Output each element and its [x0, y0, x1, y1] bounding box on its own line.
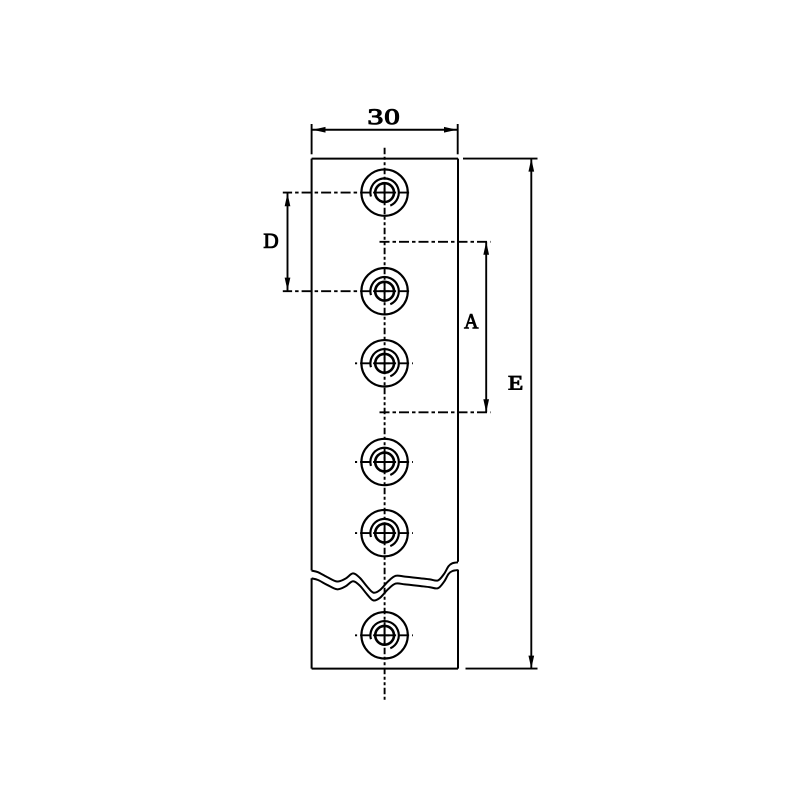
- dim 30: right arrow: [444, 127, 457, 133]
- plate outline: top edge: [312, 158, 458, 160]
- label glyph D: [264, 234, 278, 248]
- dim D: bottom arrow: [285, 278, 291, 291]
- dim E: bottom extension line: [466, 668, 538, 670]
- plate outline: bottom edge: [312, 668, 458, 670]
- dim E: dimension line: [530, 159, 532, 669]
- dim A: bottom arrow: [483, 399, 489, 412]
- hole 5: [361, 510, 407, 556]
- dim 30: dimension line: [313, 129, 458, 131]
- dim D: top arrow: [285, 193, 291, 206]
- hole 1: [361, 169, 407, 215]
- dim A: dimension line: [485, 242, 487, 412]
- hole 3 center line: [355, 362, 413, 364]
- hole 4: [361, 439, 407, 485]
- dim 30: left arrow: [313, 127, 326, 133]
- dim 30: left extension line: [311, 124, 313, 154]
- dim 30: right extension line: [457, 124, 459, 154]
- hole 1 center line (D ref top): [283, 192, 412, 194]
- dim E: bottom arrow: [528, 656, 534, 669]
- dim E: top extension line: [463, 158, 538, 160]
- label glyph 0: [385, 109, 398, 124]
- dim A: top arrow: [483, 242, 489, 255]
- vertical center line: [384, 148, 386, 700]
- plate outline: right edge (interrupted by break): [457, 159, 459, 669]
- hole 3: [361, 340, 407, 386]
- dim A: top reference line: [380, 241, 491, 243]
- hole 2 center line (D ref bottom): [283, 290, 412, 292]
- label glyph E: [509, 376, 522, 389]
- dim D: dimension line: [287, 193, 289, 290]
- label glyph A: [464, 314, 478, 328]
- hole 6: [361, 612, 407, 658]
- hole 2: [361, 268, 407, 314]
- hole 5 center line: [355, 532, 413, 534]
- plate outline: left edge (interrupted by break): [311, 159, 313, 669]
- break line bottom wavy: [312, 570, 458, 600]
- dim A: bottom reference line: [380, 411, 491, 413]
- dim E: top arrow: [528, 159, 534, 172]
- hole 4 center line: [355, 461, 413, 463]
- hole 6 center line: [355, 634, 413, 636]
- break line top wavy: [312, 562, 458, 592]
- label glyph 3: [369, 109, 382, 124]
